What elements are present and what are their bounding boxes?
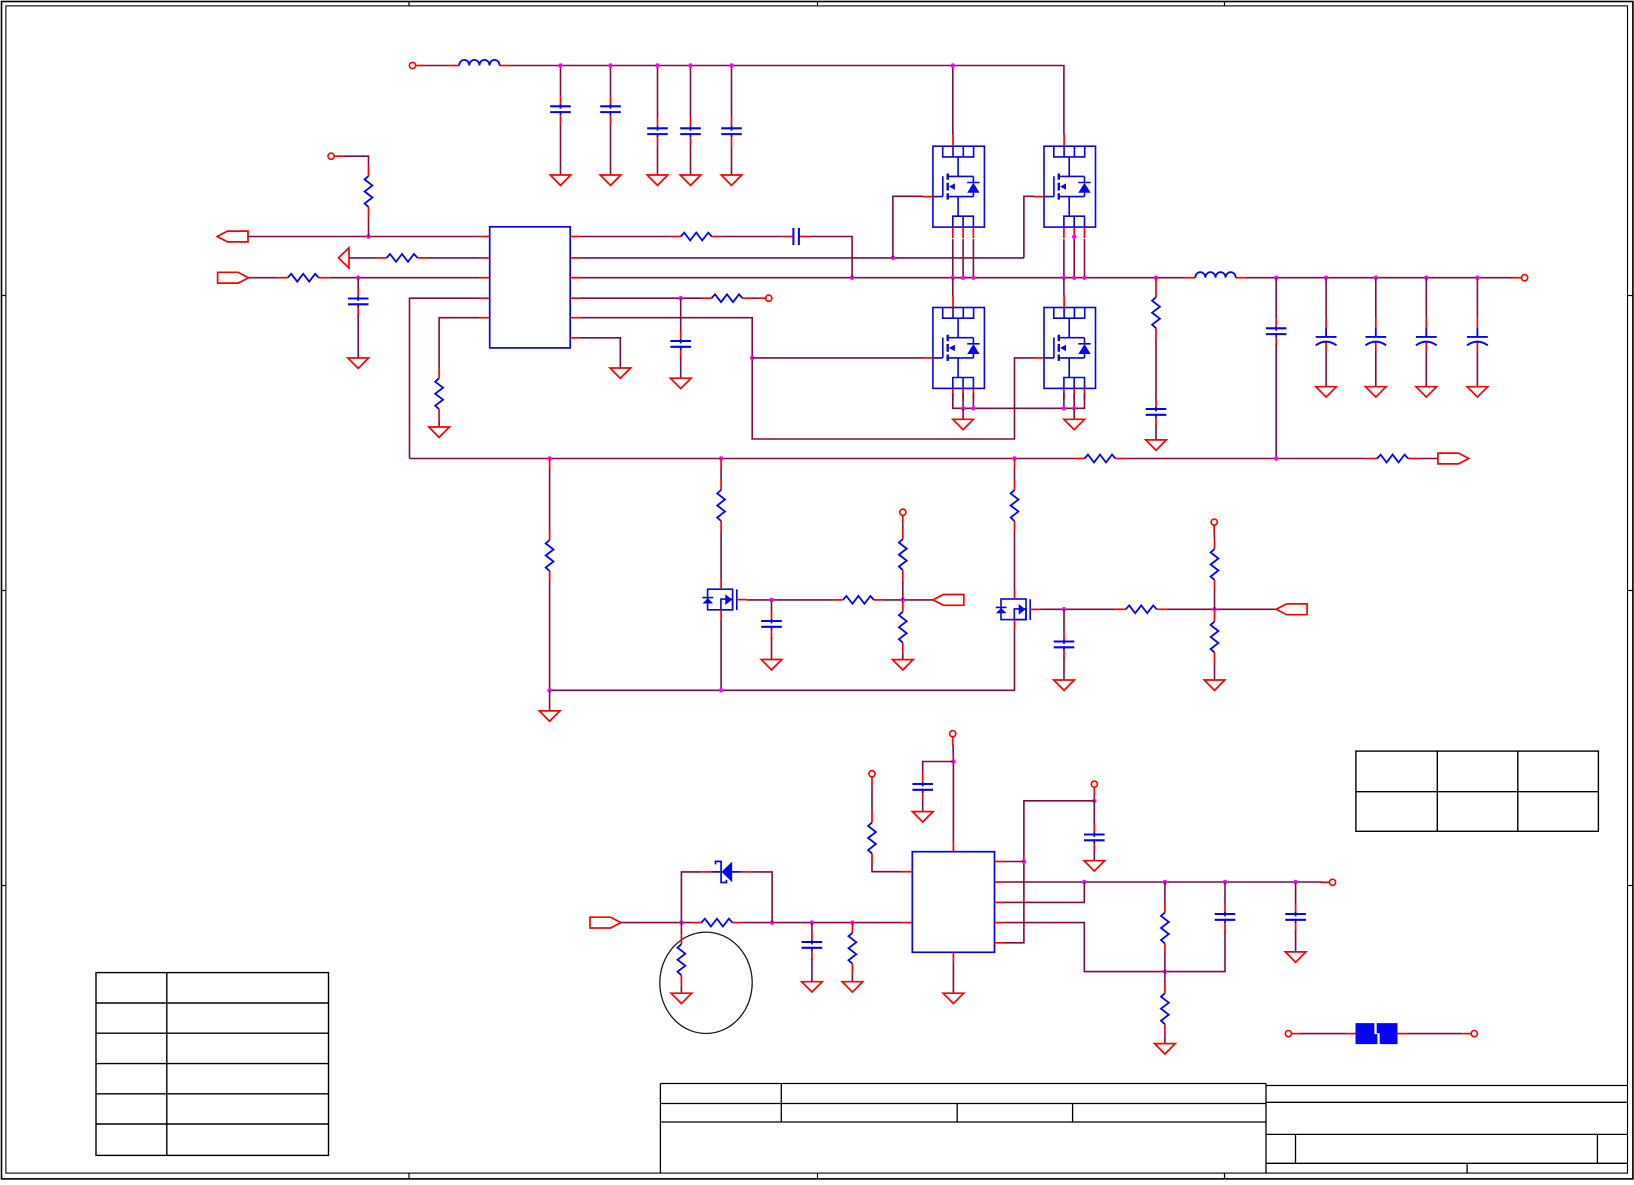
junction	[850, 920, 855, 925]
junction	[1274, 275, 1279, 280]
wire C1 bottom	[560, 124, 562, 175]
wire Q3 gate	[752, 357, 923, 359]
wire R18 down	[1214, 663, 1216, 681]
ground C2	[600, 175, 621, 185]
wire U2 pin3 loop	[1005, 882, 1085, 902]
wire C2 top	[610, 66, 612, 97]
capacitor C4	[680, 118, 701, 146]
ground C4	[680, 175, 701, 185]
wire col720 b	[720, 531, 722, 579]
wire row5 left	[439, 318, 480, 369]
wire zener left red	[701, 871, 711, 873]
port EN out	[217, 231, 248, 242]
wire C5 bottom	[731, 146, 733, 175]
wire P9 lead	[1093, 796, 1095, 801]
junction	[1324, 275, 1329, 280]
junction	[1163, 880, 1168, 885]
wire gnd bus2	[550, 630, 1015, 691]
junction	[901, 598, 906, 603]
junction	[356, 275, 361, 280]
port PGOOD	[933, 595, 964, 606]
capacitor C14 pol	[1467, 318, 1488, 351]
wire zener loop right	[752, 872, 773, 923]
wire U2 gnd	[952, 962, 954, 993]
wire Q4 drain drop	[1063, 278, 1065, 296]
junction	[1082, 275, 1087, 280]
junction	[366, 234, 371, 239]
junction	[951, 63, 956, 68]
junction	[1062, 607, 1067, 612]
wire Q1 drain drop	[952, 66, 954, 135]
junction	[1022, 859, 1027, 864]
wire R22 down	[1164, 954, 1166, 972]
junction	[961, 406, 966, 411]
wire R21 down	[851, 974, 853, 982]
wire P5 lead	[902, 524, 904, 529]
wire C18 top	[811, 923, 813, 932]
ground Q4 source	[1064, 419, 1085, 429]
wire C11 top	[1325, 278, 1327, 318]
wire bus2 gnd drop	[549, 690, 551, 711]
wire row6 right	[580, 338, 620, 368]
resistor R13	[833, 596, 884, 604]
pin P10	[1320, 879, 1335, 885]
transistor Q2	[1044, 146, 1096, 227]
junction	[1082, 880, 1087, 885]
wire C15 bottom	[771, 637, 773, 659]
resistor R14	[899, 529, 907, 580]
op-amp U2 regulator	[912, 852, 994, 953]
ground C21	[1285, 952, 1306, 962]
wire col549 a	[549, 468, 551, 530]
junction	[971, 406, 976, 411]
wire feedback bus	[410, 458, 1075, 460]
wire U1 SW pin stub	[570, 277, 580, 279]
resistor R7 snubber	[1152, 287, 1160, 338]
wire row3 left b	[329, 277, 480, 279]
junction	[688, 63, 693, 68]
capacitor C5	[721, 118, 742, 146]
wire C19 top	[1093, 801, 1095, 825]
wire row5 right	[580, 318, 1034, 439]
ground C3	[647, 175, 668, 185]
ground C16	[1054, 680, 1075, 690]
capacitor C20	[1215, 904, 1236, 932]
inductor L1	[449, 60, 509, 66]
ground C15	[761, 660, 782, 670]
resistor R11	[717, 480, 725, 531]
wire R19 down	[872, 864, 902, 872]
capacitor C1	[550, 96, 571, 124]
ground C14	[1467, 387, 1488, 397]
wire U2 pin1 row	[1005, 861, 1024, 863]
wire C16 bottom	[1063, 658, 1065, 680]
pin P3	[757, 295, 772, 301]
capacitor C9 snubber	[1146, 399, 1167, 427]
wire FET source drop	[952, 239, 954, 278]
resistor R12	[1011, 480, 1019, 531]
wire row3 left a	[249, 277, 278, 279]
junction	[547, 688, 552, 693]
wire P2 to R1	[343, 156, 368, 166]
junction	[951, 759, 956, 764]
wire col1014 b	[1014, 531, 1016, 589]
wire row1 right c	[809, 237, 852, 278]
wire C14 top	[1476, 278, 1478, 318]
junction	[719, 688, 724, 693]
junction	[547, 456, 552, 461]
wire R14 down	[902, 580, 904, 600]
capacitor C18	[802, 932, 823, 960]
resistor R17	[1211, 539, 1219, 590]
wire R17 down	[1214, 590, 1216, 609]
junction	[1012, 456, 1017, 461]
capacitor C17	[912, 774, 933, 802]
wire en loop	[1005, 801, 1095, 943]
port FB tri	[338, 248, 349, 268]
wire P7 col	[952, 745, 954, 842]
wire FET source stub	[1073, 393, 1075, 408]
wire C4 bottom	[690, 146, 692, 175]
wire C8 bottom	[680, 357, 682, 378]
wire Q3 drain drop	[952, 278, 954, 296]
resistor R24	[691, 919, 742, 927]
wire VIN rail	[425, 65, 450, 67]
resistor R1	[365, 166, 373, 217]
ground C13	[1416, 387, 1437, 397]
wire row4 left	[410, 298, 480, 458]
wire C17 bottom	[922, 800, 924, 811]
junction	[961, 275, 966, 280]
ground U1 pin	[610, 368, 631, 378]
wire zener loop left	[681, 872, 701, 923]
wire col1014 red stub	[1014, 459, 1016, 469]
ground C19	[1084, 861, 1105, 871]
junction	[769, 598, 774, 603]
ground bus2	[539, 711, 560, 721]
wire C11 bottom	[1325, 351, 1327, 387]
junction	[850, 275, 855, 280]
capacitor C12 pol	[1365, 318, 1386, 351]
wire R1 down	[368, 217, 370, 237]
fuse F1	[1356, 1023, 1398, 1044]
junction	[971, 275, 976, 280]
transistor Q4	[1044, 308, 1096, 389]
capacitor C11 pol	[1316, 318, 1337, 351]
wire C20 top	[1224, 882, 1226, 904]
resistor R15	[899, 602, 907, 653]
capacitor C13 pol	[1416, 318, 1437, 351]
ground C11	[1316, 387, 1337, 397]
op-amp U1 controller	[490, 227, 571, 348]
ground R23	[1155, 1044, 1176, 1054]
ground R20	[671, 993, 692, 1003]
ground R21	[842, 982, 863, 992]
ground C1	[550, 175, 571, 185]
diode D1 zener	[711, 861, 741, 882]
wire R4 down	[438, 419, 440, 427]
wire C6 bottom	[357, 315, 359, 358]
wire q5 gate row b	[884, 599, 933, 601]
ground Q3 source	[953, 419, 974, 429]
wire vout2 row	[1005, 881, 1323, 883]
wire FET source drop	[1084, 239, 1086, 278]
wire row4 right a	[580, 297, 701, 299]
wire col720 red stub	[720, 459, 722, 469]
wire C21 top	[1295, 882, 1297, 904]
wire C3 bottom	[657, 146, 659, 175]
junction	[1374, 275, 1379, 280]
wire SW rail	[580, 277, 1185, 279]
junction	[1092, 799, 1097, 804]
resistor R23	[1161, 983, 1169, 1034]
pin P8	[869, 771, 875, 786]
pin P12	[1462, 1031, 1477, 1037]
wire C14 bottom	[1476, 351, 1478, 387]
junction	[1072, 235, 1077, 240]
pin P2	[328, 153, 343, 159]
junction	[1274, 456, 1279, 461]
wire C10 bottom	[1275, 345, 1277, 459]
junction	[1163, 969, 1168, 974]
wire C19 bottom	[1093, 851, 1095, 861]
wire C5 top	[731, 66, 733, 119]
wire col1014 a	[1014, 468, 1016, 480]
capacitor C3	[647, 118, 668, 146]
junction	[1212, 607, 1217, 612]
port VIN_SNS	[218, 272, 249, 283]
resistor R10	[546, 530, 554, 581]
wire FET source drop	[1063, 239, 1065, 278]
junction	[750, 356, 755, 361]
ground R18	[1204, 680, 1225, 690]
wire R21 top	[851, 922, 853, 924]
wire col549 red stub	[549, 459, 551, 469]
junction	[678, 296, 683, 301]
junction	[1072, 275, 1077, 280]
capacitor C19	[1084, 825, 1105, 853]
ground R4	[429, 427, 450, 437]
wire R22 top	[1164, 882, 1166, 903]
ground C6	[348, 358, 369, 368]
junction	[891, 256, 896, 261]
wire FET source stub	[1063, 393, 1065, 408]
junction	[679, 920, 684, 925]
wire C16 top	[1063, 609, 1065, 631]
pin P9	[1091, 781, 1097, 796]
wire R23 top	[1164, 972, 1166, 984]
capacitor C16	[1054, 632, 1075, 660]
resistor R4	[435, 368, 443, 419]
ground U2	[943, 993, 964, 1003]
wire C21 bottom	[1295, 930, 1297, 952]
resistor R19	[868, 813, 876, 864]
junction	[729, 63, 734, 68]
port VBAT in	[590, 917, 621, 928]
junction	[719, 456, 724, 461]
wire zener right red	[741, 871, 752, 873]
resistor R22	[1161, 903, 1169, 954]
wire VIN bus	[510, 66, 1064, 135]
wire snubber red stub	[1155, 278, 1157, 288]
wire row2 left b	[428, 257, 480, 259]
junction	[1293, 880, 1298, 885]
wire R20 top	[680, 923, 682, 935]
capacitor C8	[670, 331, 691, 359]
wire P6 lead	[1213, 534, 1215, 539]
capacitor C2	[600, 96, 621, 124]
wire FET source stub	[972, 393, 974, 408]
wire fuse right	[1408, 1033, 1463, 1035]
resistor R3	[278, 274, 329, 282]
transistor Q3	[933, 308, 985, 389]
ground C8	[670, 378, 691, 388]
wire gnd drop Q4	[1073, 408, 1075, 419]
wire to port VOSNS	[1418, 458, 1438, 460]
resistor R8	[1075, 455, 1126, 463]
wire FET source drop	[962, 239, 964, 278]
capacitor C7 boost	[783, 228, 809, 245]
resistor R18	[1211, 612, 1219, 663]
capacitor C10	[1266, 318, 1287, 346]
wire col720 c	[720, 620, 722, 691]
wire gnd drop Q3	[962, 408, 964, 419]
wire FET source drop	[1073, 239, 1075, 278]
wire P8 lead	[871, 786, 873, 813]
junction	[1424, 275, 1429, 280]
port PGOOD2	[1276, 604, 1307, 615]
wire row1 right b	[722, 236, 784, 238]
junction	[558, 63, 563, 68]
junction	[1072, 406, 1077, 411]
capacitor C21	[1285, 904, 1306, 932]
wire C8 top	[680, 298, 682, 331]
wire fuse left	[1301, 1033, 1346, 1035]
wire C13 top	[1425, 278, 1427, 318]
resistor R21	[849, 923, 857, 974]
wire row1 left	[248, 236, 480, 238]
wire Q2 gate	[1024, 196, 1034, 258]
wire C4 top	[690, 66, 692, 119]
wire C10 top	[1275, 278, 1277, 319]
wire col549 b	[549, 581, 551, 690]
resistor R16	[1116, 605, 1167, 613]
resistor R5	[671, 233, 722, 241]
wire VOUT rail	[1246, 277, 1515, 279]
junction	[608, 63, 613, 68]
junction	[810, 920, 815, 925]
wire q5 gate row a	[747, 599, 833, 601]
wire C2 bottom	[610, 124, 612, 175]
wire C13 bottom	[1425, 351, 1427, 387]
wire vbat row a	[621, 922, 692, 924]
wire C18 bottom	[811, 958, 813, 981]
wire snubber bottom	[1155, 425, 1157, 440]
inductor L2	[1185, 272, 1245, 278]
junction	[1154, 275, 1159, 280]
ground C18	[802, 982, 823, 992]
wire C3 top	[657, 66, 659, 119]
upper-right table	[1356, 751, 1599, 831]
junction	[951, 275, 956, 280]
wire R20 down	[680, 985, 682, 993]
wire R15 down	[902, 653, 904, 660]
wire row2 left a	[349, 257, 377, 259]
wire FET source drop	[972, 239, 974, 278]
transistor Q1	[933, 146, 985, 227]
resistor R9	[1367, 455, 1418, 463]
wire row1 right a	[580, 236, 671, 238]
junction	[1223, 880, 1228, 885]
wire vbat row b	[742, 922, 902, 924]
circle annotation	[660, 932, 752, 1033]
wire snubber mid	[1155, 338, 1157, 399]
ground C17	[912, 812, 933, 822]
pin P7	[950, 731, 956, 746]
resistor R20	[678, 934, 686, 985]
pin P1 VIN	[409, 62, 424, 68]
revision table	[96, 973, 329, 1156]
pin P11	[1285, 1031, 1300, 1037]
wire q6 gate row a	[1040, 608, 1116, 610]
wire row4 right b	[753, 297, 759, 299]
wire Q1 gate	[893, 196, 923, 258]
wire row2 right	[580, 257, 1024, 259]
ground C5	[721, 175, 742, 185]
wire feedback bus b	[1126, 458, 1368, 460]
wire R23 down	[1164, 1034, 1166, 1043]
fuse F1 lead right	[1398, 1033, 1408, 1035]
wire col720 a	[720, 468, 722, 480]
port VOSNS	[1438, 453, 1469, 464]
wire U2 pin4 loop	[1005, 923, 1226, 972]
resistor R6	[702, 294, 753, 302]
capacitor C15	[761, 611, 782, 639]
U2 pin stubs	[902, 842, 1004, 963]
resistor R2	[377, 254, 428, 262]
wire Q3Q4 source bus	[953, 393, 1085, 408]
junction	[1062, 406, 1067, 411]
wire C12 top	[1375, 278, 1377, 318]
junction	[1062, 275, 1067, 280]
U1 pin stubs	[480, 237, 581, 338]
transistor Q6	[996, 599, 1030, 620]
pin P6	[1211, 519, 1217, 534]
wire C12 bottom	[1375, 351, 1377, 387]
junction	[770, 920, 775, 925]
wire C1 top	[560, 66, 562, 97]
ground R15	[893, 660, 914, 670]
wire C12cap top	[771, 600, 773, 611]
transistor Q5	[702, 589, 736, 610]
ground snubber	[1146, 440, 1167, 450]
pin P5	[900, 509, 906, 524]
junction	[655, 63, 660, 68]
wire C17 branch	[923, 762, 954, 775]
wire FET source stub	[962, 393, 964, 408]
title block	[660, 1084, 1627, 1174]
wire q6 gate row b	[1167, 608, 1277, 610]
ground C12	[1366, 387, 1387, 397]
fuse F1 lead left	[1346, 1033, 1356, 1035]
capacitor C6	[348, 289, 369, 317]
pin P4 VOUT	[1513, 275, 1528, 281]
junction	[1475, 275, 1480, 280]
wire C6 top	[357, 278, 359, 289]
